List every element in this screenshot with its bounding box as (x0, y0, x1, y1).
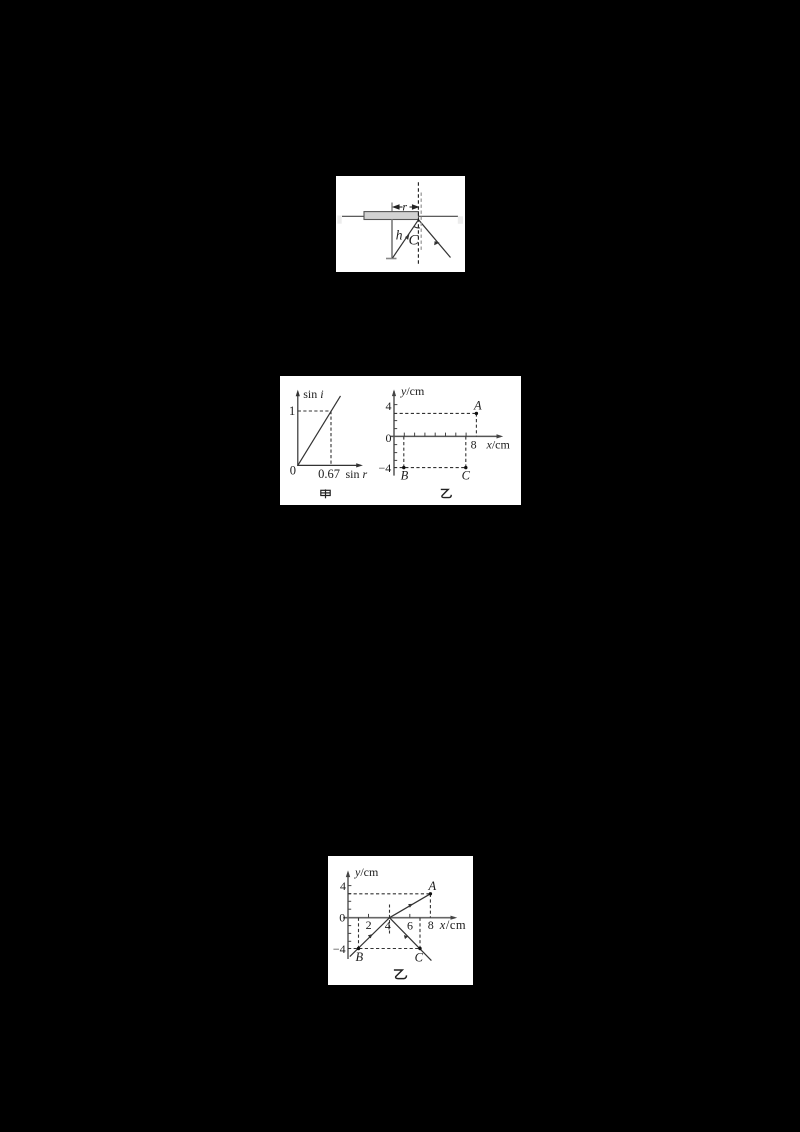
svg-text:4: 4 (386, 399, 392, 413)
point C (418, 947, 421, 950)
svg-text:0: 0 (290, 464, 296, 478)
graph yi-1: x-axis arrowhead (497, 434, 504, 438)
graph jia: y-axis (sin i) (297, 392, 299, 466)
point C (464, 466, 467, 469)
graph yi-1: y-axis arrowhead (392, 389, 396, 396)
graph yi-1: x-axis (391, 435, 501, 437)
incident ray from source to disc edge (393, 220, 419, 258)
svg-text:B: B (401, 468, 409, 482)
svg-text:2: 2 (366, 918, 372, 932)
reflected ray arrowhead (404, 935, 408, 938)
graph yi-1: dashed vertical above B (403, 436, 405, 467)
svg-text:4: 4 (385, 918, 391, 932)
refracted ray leaving to lower right (419, 220, 451, 258)
graph yi-1: dashed vertical above C (465, 436, 467, 467)
reflected ray through C (390, 918, 432, 961)
refracted ray arrowhead (435, 242, 439, 245)
r dimension arrow (left half) (394, 205, 403, 209)
figure 2: sin i / sin r graph and y-x graph (280, 376, 521, 505)
svg-text:h: h (396, 228, 403, 243)
label jia (CJK) (321, 489, 330, 498)
x-axis arrowhead (451, 916, 458, 920)
graph jia: x-axis arrowhead (356, 463, 363, 467)
svg-text:C: C (409, 233, 420, 249)
normal dashed vertical line (417, 182, 419, 265)
secondary gray dashed vertical line (420, 193, 422, 251)
figure 1: disc on water surface diagram (336, 176, 465, 272)
incident ray arrowhead (406, 235, 409, 240)
faint left line end mark (337, 216, 341, 224)
faint right line end mark (458, 216, 463, 224)
graph yi-1: dashed horizontal at -4 (394, 467, 466, 469)
graph jia: x-axis (sin r) (297, 464, 360, 466)
disc (floating circular cover, edge view) (364, 212, 419, 220)
svg-text:y/cm: y/cm (354, 865, 379, 879)
r dimension arrow (right half) (410, 205, 419, 209)
svg-text:B: B (355, 950, 363, 964)
svg-text:x/cm: x/cm (439, 918, 466, 932)
critical angle arc (414, 226, 420, 228)
svg-text:0: 0 (386, 431, 392, 445)
svg-text:−4: −4 (379, 461, 392, 475)
svg-text:0: 0 (339, 911, 345, 925)
measurement tick above disc centre (391, 203, 393, 212)
incident ray arrowhead (368, 935, 372, 939)
dashed vertical above C (419, 918, 421, 949)
graph jia: dashed vertical at sin r = 0.67 (330, 411, 332, 465)
refracted ray arrowhead (409, 904, 413, 907)
svg-text:C: C (462, 468, 471, 482)
graph yi-1: y-axis tick marks (394, 405, 397, 461)
incident ray from B to surface (350, 918, 390, 957)
label yi (CJK) (441, 489, 452, 497)
dashed normal at incidence point x=4 (389, 905, 391, 934)
refracted ray to A (390, 894, 431, 918)
point A (475, 412, 478, 415)
dashed horizontal to A (348, 893, 430, 895)
y-axis (347, 873, 349, 959)
plumb base bar (386, 258, 397, 260)
svg-text:1: 1 (289, 404, 295, 418)
svg-text:−4: −4 (333, 942, 346, 956)
svg-text:8: 8 (471, 437, 477, 451)
svg-text:4: 4 (340, 879, 346, 893)
graph yi-1: dashed horizontal to A (394, 412, 476, 414)
svg-text:sin i: sin i (303, 387, 323, 401)
graph jia: y-axis arrowhead (296, 390, 300, 397)
point B (357, 947, 360, 950)
water surface line (342, 215, 458, 217)
graph yi-1: y-axis (393, 391, 395, 475)
point A (429, 892, 432, 895)
point B (402, 466, 405, 469)
svg-text:8: 8 (428, 918, 434, 932)
x-axis (343, 917, 455, 919)
svg-text:r: r (402, 200, 407, 214)
figure 3: refraction/reflection ray graph (328, 856, 473, 985)
plumb line below disc (depth h stick) (391, 220, 393, 259)
svg-text:C: C (415, 950, 424, 964)
graph yi-1: dashed vertical from A to x-axis (475, 413, 477, 436)
dashed vertical above B (358, 918, 360, 949)
svg-text:A: A (473, 399, 482, 413)
y-axis tick marks (348, 886, 351, 942)
x-axis tick marks (369, 914, 410, 918)
svg-text:x/cm: x/cm (486, 437, 511, 451)
dashed vertical from A to x-axis (429, 894, 431, 918)
y-axis arrowhead (346, 870, 350, 877)
svg-text:y/cm: y/cm (400, 384, 425, 398)
graph jia: dashed horizontal at sin i = 1 (298, 410, 331, 412)
svg-text:A: A (427, 879, 436, 893)
svg-text:6: 6 (407, 918, 413, 932)
dashed horizontal at -4 through B and C (348, 948, 420, 950)
label yi (CJK) (394, 970, 407, 979)
svg-text:sin r: sin r (346, 467, 368, 481)
svg-text:0.67: 0.67 (318, 467, 340, 481)
graph yi-1: x-axis tick marks (404, 433, 466, 437)
graph jia: refraction line through origin (298, 396, 341, 466)
